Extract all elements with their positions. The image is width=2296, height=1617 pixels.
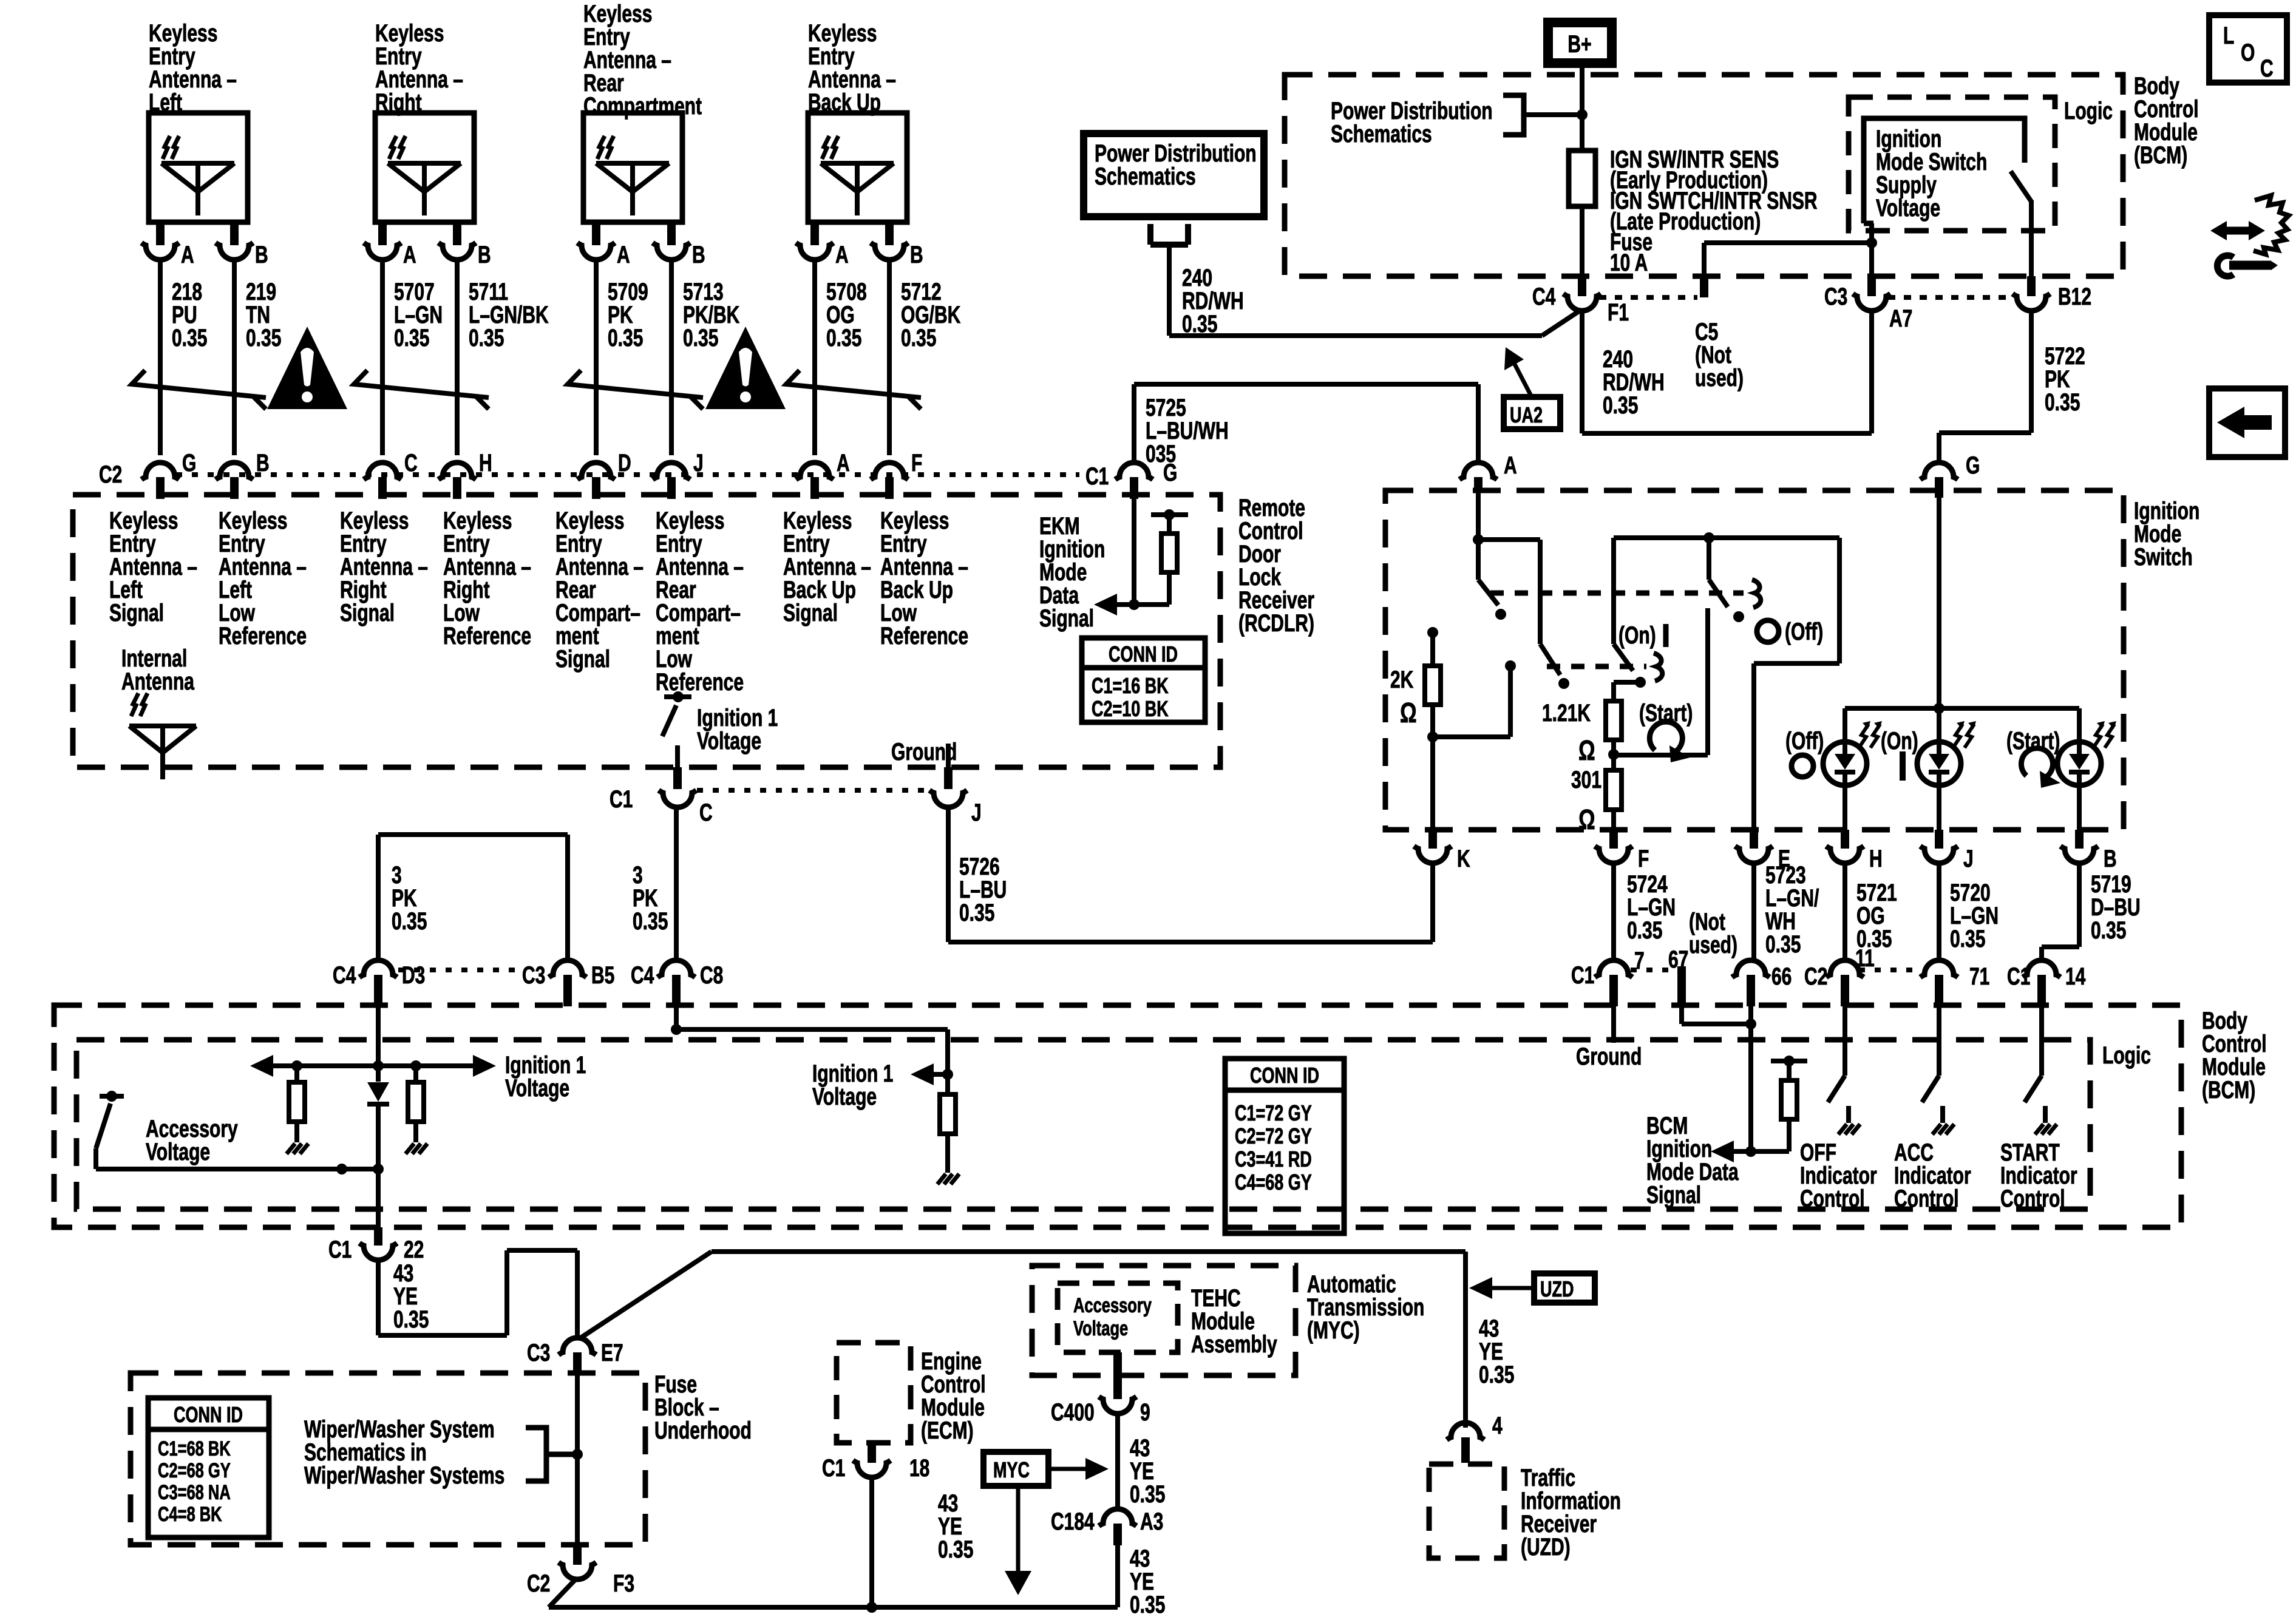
wiper washer system reference (304, 1416, 575, 1489)
fuse block underhood label (654, 1371, 752, 1444)
wire 43 YE ECM (869, 1477, 874, 1607)
svg-text:(ECM): (ECM) (921, 1417, 974, 1444)
svg-text:C1: C1 (2007, 963, 2030, 990)
MYC down arrow (1005, 1486, 1031, 1595)
harness cut symbol (132, 370, 266, 409)
wire A7 node up to supply box (1869, 223, 1874, 276)
LED rail (1845, 706, 2079, 711)
svg-text:C1: C1 (1571, 962, 1594, 989)
svg-text:0.35: 0.35 (172, 325, 207, 351)
svg-text:Wiper/Washer Systems: Wiper/Washer Systems (304, 1462, 504, 1489)
connector pin A (ignition mode switch) (1459, 452, 1517, 493)
pin B connector (653, 222, 705, 268)
wire 240 RD/WH from power distribution to F1 (1150, 224, 1580, 336)
svg-text:G: G (1966, 452, 1980, 479)
mechanical linkage (lower) (1547, 664, 1646, 670)
svg-text:0.35: 0.35 (2045, 389, 2080, 416)
wire A into switch (1473, 493, 1484, 545)
BCM row dotted line D3-B5-C8 (398, 968, 515, 972)
back arrow box (2209, 388, 2285, 457)
connector view icon (arrow and wrench) (2210, 195, 2289, 276)
svg-text:22: 22 (404, 1236, 424, 1263)
svg-text:Schematics: Schematics (1331, 121, 1432, 147)
pull-down resistor 2 (406, 1060, 427, 1154)
wire 218 PU (160, 260, 207, 455)
svg-text:1.21K: 1.21K (1542, 700, 1591, 727)
START indicator control switch (2025, 1006, 2057, 1134)
svg-text:C3: C3 (522, 962, 545, 989)
wire C8 ignition 1 sense (671, 1006, 953, 1080)
keyless entry antenna right label (375, 20, 463, 116)
connector C1 pin C (610, 767, 713, 826)
svg-text:0.35: 0.35 (1479, 1361, 1514, 1388)
svg-text:Signal: Signal (340, 600, 395, 626)
svg-text:C400: C400 (1051, 1399, 1095, 1426)
BCM lower label (2202, 1008, 2267, 1103)
OFF indicator control switch (1828, 1006, 1860, 1134)
label 43 YE 0.35 (C1 22) (393, 1260, 429, 1333)
warning triangle 2 (705, 327, 786, 409)
svg-text:0.35: 0.35 (393, 1306, 429, 1333)
On indicator bar (1881, 728, 1918, 781)
svg-text:MYC: MYC (993, 1457, 1030, 1482)
svg-text:G: G (1163, 459, 1177, 486)
traffic information receiver UZD dashed box (1429, 1464, 1504, 1558)
EKM ignition mode data signal wire (1094, 499, 1140, 615)
connector C3 pin B5 (522, 960, 614, 1006)
wire G down to LED rail (1934, 498, 1944, 714)
svg-text:(On): (On) (1618, 622, 1656, 649)
wire 67 to 66 jumper (1682, 1006, 1756, 1029)
connector C1 pin G (RCDLR) (1085, 459, 1177, 499)
switch pole 2 blade (1540, 644, 1569, 689)
wire 3 PK C1 C to C4 C8 (674, 807, 679, 959)
EKM ignition mode data signal label (1039, 513, 1105, 632)
connector pin 11 (1826, 945, 1875, 1006)
UA2 circuit callout (1504, 347, 1560, 429)
svg-text:Signal: Signal (1039, 605, 1094, 632)
logic dashed box (lower) (76, 1040, 2090, 1209)
connector C400 pin 9 (1051, 1352, 1150, 1426)
wire from B+ to fuse (1524, 66, 1588, 151)
svg-text:(BCM): (BCM) (2202, 1077, 2255, 1103)
svg-text:C4: C4 (1532, 283, 1556, 310)
UZD circuit callout (1469, 1273, 1595, 1303)
LED start indicator (2057, 708, 2116, 830)
svg-text:C1: C1 (610, 786, 633, 813)
pin A connector (577, 222, 630, 268)
svg-text:(Off): (Off) (1785, 728, 1824, 754)
connector pin G (ignition mode switch) (1920, 452, 1980, 498)
svg-text:B5: B5 (591, 962, 614, 989)
svg-text:A3: A3 (1140, 1508, 1163, 1535)
svg-text:A: A (1504, 452, 1517, 479)
svg-text:Ω: Ω (1578, 804, 1595, 835)
svg-text:(On): (On) (1881, 728, 1918, 754)
svg-text:J: J (693, 450, 704, 476)
label not used 67 (1689, 909, 1737, 958)
BCM internal wire C5 to A7 node (1704, 237, 1877, 276)
svg-text:D3: D3 (402, 962, 425, 989)
accessory voltage switch (96, 1091, 124, 1169)
connector pin K (ignition mode switch) (1414, 830, 1470, 872)
svg-text:C4: C4 (333, 962, 356, 989)
svg-text:C3: C3 (1824, 283, 1847, 310)
svg-text:F: F (1638, 846, 1649, 872)
svg-text:71: 71 (1969, 963, 1989, 990)
svg-text:B: B (692, 242, 705, 268)
RCDLR pin J connector (653, 450, 704, 499)
RCDLR pin H connector (438, 450, 492, 499)
svg-text:Control: Control (1800, 1185, 1865, 1212)
label 3 PK 0.35 (left) (392, 862, 427, 935)
connector C3 pin A7 (1824, 276, 1912, 332)
svg-text:Signal: Signal (109, 600, 164, 626)
ACC indicator control label (1894, 1139, 1971, 1212)
RCDLR pin function text (656, 507, 744, 696)
connector C2 row dotted line (176, 472, 1079, 477)
svg-text:Antenna: Antenna (121, 668, 194, 695)
dotted line C3 to B12 (1888, 295, 2016, 300)
pin A connector (141, 222, 194, 268)
power distribution schematics box (1084, 134, 1264, 217)
svg-text:C1: C1 (328, 1236, 352, 1263)
svg-text:(RCDLR): (RCDLR) (1238, 610, 1314, 637)
svg-text:0.35: 0.35 (1182, 311, 1217, 337)
RCDLR ignition 1 voltage switch (662, 691, 691, 767)
automatic transmission MYC dashed box (1032, 1266, 1296, 1375)
ignition mode switch dashed box (1385, 490, 2124, 830)
svg-text:0.35: 0.35 (1765, 931, 1801, 958)
OFF indicator control label (1800, 1139, 1877, 1212)
label 240 RD/WH 0.35 (1182, 265, 1244, 337)
connector pin J (ignition mode switch) (1920, 830, 1974, 872)
CONN ID table (BCM) (1225, 1059, 1344, 1233)
svg-text:A: A (617, 242, 630, 268)
accessory switch rail (96, 1164, 384, 1175)
svg-text:18: 18 (909, 1455, 929, 1482)
supply voltage switch blade (2011, 171, 2031, 202)
switch pole 3 blade (1614, 644, 1646, 688)
svg-text:C1=68 BK: C1=68 BK (158, 1438, 231, 1460)
label 43 YE 0.35 (C184) (1130, 1545, 1165, 1617)
ground wire pin 7 into BCM (1611, 1006, 1616, 1043)
svg-text:H: H (1869, 846, 1883, 872)
ignition 1 voltage label (sense) (812, 1060, 893, 1110)
traffic information receiver label (1521, 1465, 1621, 1561)
label 5725 L-BU/WH 035 (1146, 395, 1229, 467)
connector C5 not used (1695, 276, 1744, 392)
svg-text:Voltage: Voltage (812, 1083, 877, 1110)
svg-text:C4=68 GY: C4=68 GY (1235, 1170, 1312, 1195)
sense resistor to ground (937, 1074, 959, 1184)
fuse block underhood dashed box (131, 1373, 645, 1545)
RCDLR pin function text (340, 507, 428, 626)
label 5726 L-BU 0.35 (959, 853, 1007, 926)
accessory voltage dashed box (TEHC) (1058, 1283, 1178, 1352)
accessory voltage label (146, 1116, 238, 1165)
svg-text:Assembly: Assembly (1191, 1331, 1277, 1358)
logic dashed box (top BCM) (1849, 97, 2055, 231)
svg-text:C2: C2 (99, 461, 122, 488)
fuse label (1610, 146, 1818, 276)
BCM internal resistor (1751, 1056, 1807, 1151)
keyless entry antenna right box (375, 113, 474, 222)
svg-text:B: B (478, 242, 491, 268)
fuse IGN SW/INTR SENS 10 A (1569, 151, 1595, 206)
wire 5725 L-BU/WH from RCDLR C1 G up and over to A (1134, 384, 1478, 463)
RCDLR pin C connector (364, 450, 418, 499)
START indicator control label (2000, 1139, 2077, 1212)
svg-text:C4=8 BK: C4=8 BK (158, 1503, 222, 1526)
svg-text:0.35: 0.35 (1130, 1592, 1165, 1617)
harness cut symbol (568, 370, 703, 409)
svg-text:0.35: 0.35 (392, 908, 427, 935)
2K to contact riser (1433, 660, 1516, 737)
svg-text:0.35: 0.35 (633, 908, 668, 935)
svg-text:Signal: Signal (555, 646, 610, 673)
svg-text:H: H (479, 450, 492, 476)
RCDLR pin function text (219, 507, 307, 649)
connector pin 4 (UZD) (1447, 1412, 1503, 1463)
svg-text:Reference: Reference (880, 623, 968, 649)
svg-text:301: 301 (1571, 767, 1601, 793)
svg-text:0.35: 0.35 (938, 1536, 973, 1563)
wire D3 ignition 1 feed (373, 1006, 384, 1082)
svg-text:(MYC): (MYC) (1307, 1317, 1360, 1344)
connector pin H (ignition mode switch) (1826, 830, 1883, 872)
label 5721 OG 0.35 (1856, 880, 1897, 952)
svg-text:11: 11 (1855, 945, 1875, 972)
LED on indicator (1917, 708, 1976, 830)
svg-text:7: 7 (1634, 947, 1645, 974)
svg-text:C1: C1 (822, 1455, 845, 1482)
wire 43 YE branch to UZD (580, 1252, 1466, 1428)
svg-text:Voltage: Voltage (505, 1075, 569, 1102)
RCDLR pin D connector (577, 450, 631, 499)
wire 3 PK jumper D3 to B5 (378, 835, 568, 959)
On label (1618, 622, 1666, 649)
svg-text:Reference: Reference (443, 623, 531, 649)
svg-text:CONN ID: CONN ID (1109, 642, 1178, 666)
connector pin E (ignition mode switch) (1735, 830, 1790, 872)
label 5719 D-BU 0.35 (2091, 871, 2141, 944)
svg-text:4: 4 (1492, 1412, 1503, 1439)
svg-text:F: F (911, 450, 922, 476)
svg-text:B: B (256, 450, 270, 476)
RCDLR internal resistor (1134, 509, 1188, 605)
svg-text:L: L (2223, 22, 2234, 49)
svg-text:0.35: 0.35 (683, 325, 718, 351)
RCDLR pin A connector (796, 450, 850, 499)
ACC indicator control switch (1922, 1006, 1954, 1134)
connector C184 pin A3 (1051, 1508, 1163, 1545)
wire 5724 L-GN F to BCM C1 7 (1611, 863, 1616, 960)
svg-text:F3: F3 (613, 1570, 634, 1597)
label ignition 1 voltage (697, 705, 778, 754)
svg-text:C: C (2260, 55, 2274, 82)
svg-text:Voltage: Voltage (1876, 195, 1940, 222)
svg-text:B+: B+ (1567, 31, 1591, 58)
svg-text:Reference: Reference (219, 623, 307, 649)
svg-text:0.35: 0.35 (901, 325, 936, 351)
svg-text:C2=72 GY: C2=72 GY (1235, 1124, 1312, 1148)
wire 5723 L-GN/WH E to BCM 66 (1751, 863, 1756, 960)
connector pin 66 / C2 (1732, 960, 1827, 1006)
wire 5719 D-BU B to BCM C1 14 (2042, 863, 2079, 960)
RCDLR pin function text (880, 507, 968, 649)
svg-text:B12: B12 (2058, 283, 2091, 310)
connector pin J (929, 767, 982, 826)
RCDLR pin G connector (141, 450, 196, 499)
BCM ignition mode data signal label (1646, 1113, 1739, 1209)
connector pin B (ignition mode switch) (2060, 830, 2117, 872)
connector pin B12 (2012, 276, 2091, 311)
svg-text:C1=16 BK: C1=16 BK (1092, 673, 1169, 698)
svg-text:Control: Control (1894, 1185, 1959, 1212)
svg-text:C3: C3 (527, 1340, 550, 1366)
wire 43 YE TEHC (1115, 1414, 1120, 1509)
svg-text:Switch: Switch (2134, 544, 2193, 571)
svg-text:C8: C8 (700, 962, 723, 989)
wire 5711 L–GN/BK (457, 260, 549, 455)
label 43 YE 0.35 (TEHC) (1130, 1435, 1165, 1508)
label 3 PK 0.35 (right) (633, 862, 668, 935)
BCM ignition mode data signal wire (1711, 1006, 1756, 1162)
svg-text:F1: F1 (1608, 299, 1629, 326)
wire to C1 22 (376, 1169, 381, 1227)
connector C1 pin 22 (328, 1227, 424, 1263)
svg-text:B: B (2104, 846, 2117, 872)
wire fuse to C4 F1 (1580, 206, 1584, 276)
wire F3 to bottom rail (549, 1579, 1118, 1613)
RCDLR pin function text (555, 507, 644, 673)
svg-text:14: 14 (2065, 963, 2086, 990)
svg-text:0.35: 0.35 (1950, 926, 1985, 952)
svg-text:C1=72 GY: C1=72 GY (1235, 1100, 1312, 1125)
svg-text:C2=68 GY: C2=68 GY (158, 1460, 231, 1482)
CONN ID table (RCDLR) (1082, 638, 1205, 722)
keyless entry antenna back up label (808, 20, 896, 116)
svg-text:Ω: Ω (1400, 697, 1417, 728)
switch pole 2 feed (1478, 540, 1540, 644)
svg-text:C: C (699, 799, 713, 826)
svg-text:A: A (837, 450, 850, 476)
svg-text:Accessory: Accessory (1073, 1295, 1152, 1317)
internal antenna symbol (129, 693, 196, 779)
warning triangle 1 (267, 327, 347, 409)
svg-text:A: A (403, 242, 416, 268)
battery B+ feed (1548, 22, 1612, 63)
wire 43 YE from C1 22 (378, 1250, 577, 1340)
svg-text:(Off): (Off) (1785, 619, 1823, 645)
label 240 RD/WH 0.35 (lower) (1603, 346, 1665, 419)
wire 5712 OG/BK (889, 260, 961, 455)
svg-text:(BCM): (BCM) (2134, 142, 2187, 169)
CONN ID table (fuse block) (148, 1398, 269, 1537)
ground wire RCDLR J to switch K (948, 807, 1433, 942)
svg-text:UA2: UA2 (1510, 402, 1543, 427)
svg-text:C4: C4 (631, 962, 654, 989)
Off contact circle (1757, 619, 1823, 645)
svg-text:10 A: 10 A (1610, 249, 1648, 276)
wire 5707 L–GN (382, 260, 443, 455)
wire 43 YE below C184 (1115, 1545, 1120, 1607)
svg-text:used): used) (1689, 932, 1737, 958)
LED off indicator (1823, 708, 1882, 830)
connector C1 pin 14 (2007, 960, 2086, 1006)
svg-text:Signal: Signal (783, 600, 838, 626)
pin B connector (438, 222, 491, 268)
connector C1 pin 18 (ECM) (822, 1443, 929, 1482)
svg-text:D: D (618, 450, 631, 476)
connector C4 pin D3 (333, 960, 425, 1006)
switch pole 4 blade (1709, 538, 1744, 622)
label 5722 PK 0.35 (2045, 343, 2085, 416)
svg-text:Control: Control (2000, 1185, 2065, 1212)
svg-text:0.35: 0.35 (469, 325, 504, 351)
mechanical linkage (upper) (1490, 591, 1744, 596)
svg-text:B: B (910, 242, 923, 268)
ECM label (921, 1348, 986, 1444)
RCDLR pin F connector (871, 450, 922, 499)
internal diode (367, 1082, 389, 1169)
301 resistor (1606, 770, 1622, 830)
svg-text:Voltage: Voltage (146, 1139, 210, 1165)
svg-text:C2: C2 (1804, 963, 1827, 990)
svg-text:Voltage: Voltage (1073, 1318, 1128, 1340)
keyless entry antenna rear compartment box (583, 113, 682, 222)
connector pin F (ignition mode switch) (1595, 830, 1649, 872)
engine control module ECM dashed box (837, 1343, 911, 1443)
svg-text:0.35: 0.35 (1603, 392, 1638, 419)
svg-text:Schematics: Schematics (1095, 163, 1196, 190)
svg-text:used): used) (1695, 365, 1744, 392)
label 43 YE 0.35 (UZD) (1479, 1315, 1514, 1388)
svg-text:Logic: Logic (2102, 1042, 2151, 1069)
RCDLR pin function text (783, 507, 871, 626)
wire 5708 OG (815, 260, 867, 455)
pin A connector (364, 222, 416, 268)
svg-text:0.35: 0.35 (1627, 917, 1662, 944)
wire E7 to F3 inside fuse block (572, 1374, 583, 1545)
svg-text:G: G (182, 450, 196, 476)
accessory voltage label (TEHC) (1073, 1295, 1152, 1340)
svg-text:0.35: 0.35 (959, 900, 994, 926)
RCDLR pin function text (443, 507, 531, 649)
connector C4 pin F1 (1532, 276, 1629, 326)
ignition mode switch supply voltage block (1864, 118, 2025, 223)
svg-text:C184: C184 (1051, 1508, 1095, 1535)
svg-text:C3=41 RD: C3=41 RD (1235, 1147, 1312, 1171)
svg-text:C2: C2 (527, 1570, 550, 1597)
svg-text:0.35: 0.35 (826, 325, 861, 351)
svg-text:J: J (971, 799, 982, 826)
RCDLR pin B connector (216, 450, 270, 499)
E output path (1754, 538, 1839, 830)
wire 5720 L-GN J to BCM 71 (1937, 863, 1941, 960)
label 5723 L-GN/WH 0.35 (1765, 862, 1819, 958)
connector C4 pin C8 (631, 960, 723, 1006)
connector C1 pin 7 (1571, 947, 1645, 1006)
RCDLR name label (1238, 495, 1314, 637)
BCM row dotted line 11-71 (1859, 968, 1921, 972)
svg-text:UZD: UZD (1540, 1276, 1574, 1301)
harness cut symbol (786, 370, 921, 409)
remote control door lock receiver RCDLR dashed box (73, 495, 1220, 767)
RCDLR ground wire to pin J (946, 744, 951, 767)
1.21K resistor (1606, 682, 1638, 770)
